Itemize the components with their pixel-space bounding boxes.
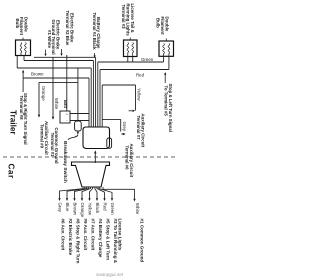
svg-text:#7 Aux. Circuit: #7 Aux. Circuit (90, 219, 95, 251)
svg-text:Grey: Grey (58, 203, 63, 213)
wire: left bulb right leg + bus (24, 56, 93, 61)
wire white drop to common ground (52, 57, 54, 120)
label: stop & right turn signal terminal #8 (19, 93, 28, 145)
svg-text:Terminal #8: Terminal #8 (19, 96, 24, 121)
wire orange drop to aux 9 (38, 82, 40, 117)
wire arrow aux circuit 7 (129, 110, 136, 112)
label: Yellow (136, 88, 141, 101)
wire: battery negative lead (70, 120, 89, 122)
label: Batt (63, 100, 68, 109)
svg-text:Brown: Brown (73, 203, 78, 216)
lamp L3 double-filament bulb (right tail light) (159, 39, 174, 57)
svg-text:Blue: Blue (65, 203, 70, 212)
label: electric brake terminal #2 blue (65, 11, 74, 46)
lamp L1 double-filament bulb (left tail light) (16, 38, 31, 56)
label: stop & left turn signal to terminal #5 (163, 84, 173, 132)
label: electric brake ground terminal #1 white (47, 20, 61, 55)
svg-text:#9 Aux. Circuit: #9 Aux. Circuit (83, 219, 88, 251)
svg-text:Yellow: Yellow (136, 88, 141, 101)
svg-text:Red: Red (103, 203, 108, 212)
wire: battery positive lead (70, 113, 89, 115)
footer source text (96, 272, 124, 277)
label: Trailer (9, 110, 18, 135)
svg-text:#3 To Tail Running &: #3 To Tail Running & (113, 219, 118, 264)
wire: plug mating stub (94, 150, 96, 163)
svg-text:Terminal #3: Terminal #3 (121, 5, 126, 30)
svg-text:Grey: Grey (122, 122, 127, 132)
wire: car harness green to #3 To Tail Running & (99, 187, 123, 264)
label: White (trailer side) (54, 98, 59, 110)
svg-text:License Lights: License Lights (118, 219, 123, 251)
svg-text:Red: Red (136, 72, 145, 77)
label: auxiliary circuit terminal #7 (136, 113, 146, 147)
svg-text:#2 Electric Brake: #2 Electric Brake (68, 219, 73, 256)
svg-text:White: White (135, 203, 140, 215)
label: auxiliary circuit terminal #9 (39, 121, 48, 155)
svg-text:Bulb: Bulb (15, 19, 20, 29)
wire: cable bundle into trailer connector (89, 57, 102, 127)
label: Breakaway Switch (62, 141, 68, 183)
wire: breakaway pull pin cable (68, 135, 78, 140)
label: license tail and running lights terminal #3 (121, 4, 135, 37)
wire arrow stop/right-turn callout (22, 70, 24, 92)
wire: aux/battery bus (39, 81, 78, 83)
connector J2 car-side socket (72, 162, 110, 187)
svg-text:swanpgui.net: swanpgui.net (96, 272, 124, 277)
svg-text:Green: Green (110, 203, 115, 216)
label: Orange (41, 86, 46, 101)
label: common ground terminal #1 (50, 128, 59, 164)
wire: car harness red to #5 Stop & Left Turn (97, 187, 111, 260)
svg-text:Terminal #4 Black: Terminal #4 Black (92, 13, 97, 51)
label: Brown (31, 72, 44, 77)
label: Green (141, 57, 154, 62)
wire arrow white #1 (44, 50, 46, 57)
wire: car harness grey to #6 Aux. Circuit (58, 187, 85, 251)
svg-text:#6 Aux. Circuit: #6 Aux. Circuit (60, 219, 65, 251)
svg-text:#1 Common Ground: #1 Common Ground (139, 219, 144, 263)
battery polarity marks (66, 112, 68, 122)
wire: white ground bus #1 (34, 56, 96, 58)
wire arrow under breakaway switch (77, 131, 79, 135)
svg-text:#8 Stop & Right Turn: #8 Stop & Right Turn (75, 219, 80, 264)
svg-text:Terminal #6: Terminal #6 (125, 146, 130, 171)
svg-text:To Terminal #5: To Terminal #5 (163, 86, 168, 117)
svg-text:#5 Stop & Left Turn: #5 Stop & Left Turn (105, 219, 110, 261)
wire: L2 legs to green bus (128, 57, 133, 63)
svg-text:Trailer: Trailer (9, 110, 18, 135)
svg-text:Breakaway Switch: Breakaway Switch (62, 141, 68, 183)
wire: L3 right leg (168, 56, 170, 69)
breakaway switch S1 body (75, 121, 82, 131)
wire: brown bus (23, 77, 89, 79)
svg-text:Brown: Brown (31, 72, 44, 77)
svg-text:Green: Green (141, 57, 154, 62)
wire: L3 left leg to green bus (163, 56, 165, 62)
wire: grey lead from connector (102, 119, 121, 131)
wire: car harness white to #1 Common Ground (103, 187, 144, 262)
label: Red (136, 72, 145, 77)
wire: red bus stop/left-turn (100, 69, 169, 71)
wire arrow blue #2 (60, 49, 62, 56)
wire: car harness blue to #2 Electric Brake (65, 187, 86, 256)
wire arrow aux circuit 6 (121, 133, 125, 135)
wire arrow black #4 (94, 53, 96, 58)
wire arrow red to terminal 5 (164, 72, 166, 83)
svg-text:+: + (66, 112, 68, 116)
wire: car harness yellow to #7 Aux. Circuit (88, 187, 96, 251)
label: double filament bulb (left) (15, 17, 29, 36)
svg-text:White: White (54, 98, 59, 110)
svg-text:Terminal #1: Terminal #1 (50, 133, 55, 158)
svg-text:Car: Car (7, 164, 16, 179)
wire: green bus tail lights (98, 61, 164, 63)
connector J1 trailer-side plug (83, 127, 112, 149)
svg-text:Terminal #9: Terminal #9 (39, 124, 44, 149)
wire: car harness black to #4 Battery Charge (95, 187, 103, 258)
label: auxiliary circuit terminal #6 (125, 144, 135, 178)
separator dashed line trailer/car (3, 156, 178, 158)
label: battery charge terminal #4 black (92, 13, 101, 51)
svg-text:#1 White: #1 White (47, 30, 52, 49)
wire: left bulb left leg + bus (17, 56, 91, 69)
svg-text:Batt: Batt (63, 100, 68, 109)
wire: car harness brown to #8 Stop & Right Turn (73, 187, 89, 264)
svg-text:Yellow: Yellow (88, 203, 93, 216)
svg-text:#4 Battery Charge: #4 Battery Charge (98, 219, 103, 258)
wire: blue lead to brake battery (66, 55, 68, 111)
wire: car harness orange to #9 Aux. Circuit (80, 187, 90, 251)
wire: yellow aux wire (102, 85, 135, 111)
svg-text:Bulb: Bulb (156, 18, 161, 28)
label: Grey (trailer side) (122, 122, 127, 132)
svg-text:Terminal #7: Terminal #7 (136, 116, 141, 141)
svg-text:Orange: Orange (41, 86, 46, 101)
svg-text:Terminal #2 Blue: Terminal #2 Blue (65, 11, 70, 46)
label: Car (7, 164, 16, 179)
lamp L2 double-filament bulb (license/tail) (124, 38, 138, 57)
battery BT1 box (60, 111, 70, 123)
wire: breakaway switch lead (77, 68, 79, 121)
label: double filament bulb (right) (156, 17, 170, 36)
svg-text:Orange: Orange (80, 203, 85, 218)
svg-text:Black: Black (95, 203, 100, 215)
